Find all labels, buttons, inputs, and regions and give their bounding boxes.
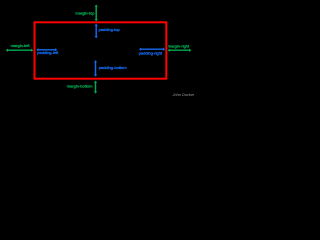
svg-text:margin-top: margin-top <box>75 11 95 16</box>
padding-right arrow <box>139 48 165 51</box>
svg-text:padding-bottom: padding-bottom <box>99 65 127 70</box>
padding-bottom arrow <box>94 60 97 76</box>
border box (red rectangle) <box>35 22 167 78</box>
svg-text:margin-right: margin-right <box>168 44 190 49</box>
svg-text:padding-top: padding-top <box>99 27 121 32</box>
svg-text:margin-left: margin-left <box>11 43 31 48</box>
padding-top arrow <box>95 24 98 39</box>
svg-text:padding-left: padding-left <box>37 50 59 55</box>
svg-text:margin-bottom: margin-bottom <box>67 84 93 89</box>
padding-left arrow <box>36 48 57 51</box>
margin-right arrow <box>168 49 192 52</box>
margin-top arrow <box>95 5 98 22</box>
svg-text:padding-right: padding-right <box>139 51 163 56</box>
margin-bottom arrow <box>94 81 97 94</box>
svg-text:John Ducker: John Ducker <box>172 92 196 97</box>
margin-left arrow <box>6 49 34 52</box>
